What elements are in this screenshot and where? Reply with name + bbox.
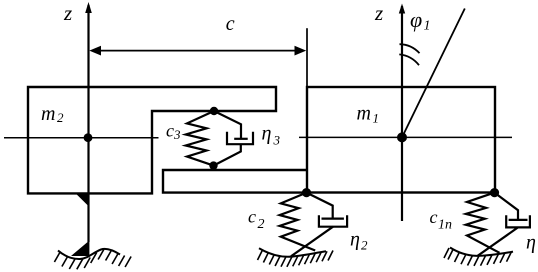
svg-text:η: η (526, 232, 536, 254)
svg-text:2: 2 (361, 238, 368, 253)
svg-text:z: z (63, 1, 72, 25)
ground under c1p (450, 248, 513, 256)
node c2 (302, 188, 311, 197)
pivot node of m2 on z axis (84, 133, 93, 142)
label eta2 (350, 229, 368, 253)
svg-text:1: 1 (424, 19, 431, 34)
label m1 (357, 103, 380, 126)
svg-text:2: 2 (258, 217, 265, 232)
mass m1 body (307, 87, 495, 193)
label phi1 (410, 7, 431, 34)
label c3 (166, 121, 181, 143)
node c3 bottom (209, 161, 217, 169)
svg-text:c: c (226, 13, 235, 35)
svg-text:c: c (248, 207, 256, 227)
label c2 (248, 207, 265, 232)
centerline of m1 (299, 136, 512, 138)
wedge at left ground (71, 241, 89, 257)
label c1p (430, 207, 453, 233)
centerline of m2 (4, 137, 159, 139)
svg-text:z: z (374, 1, 383, 25)
left ground hatching (54, 249, 131, 269)
hatching under c2 ground (258, 250, 334, 267)
spring c2 (280, 193, 316, 251)
lower-left bar of m1 (163, 170, 307, 193)
label eta3 (262, 123, 281, 148)
ground under c2 (259, 248, 326, 256)
svg-text:2: 2 (57, 110, 64, 125)
node c3 top (210, 107, 218, 115)
wedge at m2 bottom (77, 194, 90, 207)
spring c1p (466, 193, 500, 253)
svg-text:3: 3 (173, 127, 181, 142)
svg-text:m: m (357, 103, 371, 125)
label m2 (41, 103, 64, 125)
svg-text:3: 3 (273, 133, 281, 148)
svg-text:η: η (262, 123, 272, 145)
hatching under c1p ground (444, 248, 512, 266)
damper eta3 (214, 111, 254, 166)
extension line right of dimension (306, 28, 308, 87)
svg-text:1п: 1п (438, 218, 452, 233)
rotated axis diagonal line (402, 9, 465, 138)
svg-text:m: m (41, 103, 55, 125)
svg-text:1: 1 (373, 111, 380, 126)
svg-text:c: c (166, 121, 174, 141)
mass m2 body (L-shape with upper arm) (28, 87, 276, 193)
rotation arc 2 (399, 54, 419, 65)
svg-text:η: η (350, 229, 360, 251)
rotation arc 1 (400, 44, 420, 53)
node c1p (490, 188, 499, 197)
left ground surface (wavy) (58, 249, 120, 259)
pivot node of m1 (397, 132, 407, 142)
damper eta2 (291, 193, 347, 257)
svg-text:c: c (430, 207, 438, 227)
z axis left (85, 2, 92, 242)
spring c3 (186, 111, 214, 166)
damper eta (right) (478, 193, 530, 256)
svg-text:φ: φ (410, 7, 422, 32)
dimension line c (89, 46, 306, 56)
z axis right (399, 4, 405, 222)
